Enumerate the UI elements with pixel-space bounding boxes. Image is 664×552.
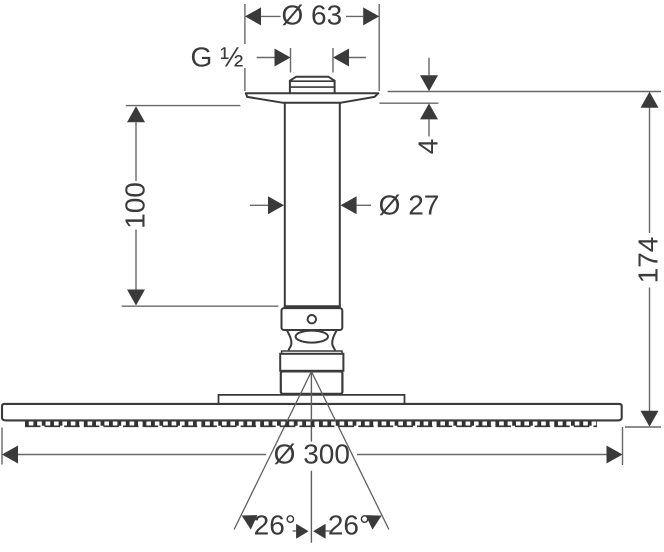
- angle center arrow right: [313, 524, 326, 539]
- collar nut: [282, 308, 343, 330]
- thread stub: [290, 77, 335, 93]
- dimension 4 extension line bottom: [380, 102, 439, 104]
- dimension 100 arrow bottom: [127, 290, 145, 306]
- dimension Ø300 arrow left: [2, 446, 18, 464]
- dimension Ø63 arrow left: [245, 7, 261, 25]
- dimension Ø27 arrow left: [268, 196, 284, 214]
- dimension G1/2 tail left: [257, 57, 275, 59]
- dimension 174 line: [649, 108, 651, 412]
- dimension G1/2 arrow right: [333, 49, 349, 67]
- dimension G1/2 extension line left: [290, 48, 292, 73]
- svg-text:26°: 26°: [328, 510, 370, 541]
- ball joint right contour: [332, 330, 336, 350]
- thread lines: [290, 81, 335, 87]
- angle arrowhead right: [366, 515, 382, 530]
- dimension Ø300 extension line left: [1, 428, 3, 465]
- dimension 100 line: [135, 123, 137, 290]
- svg-text:26°: 26°: [254, 510, 296, 541]
- dimension Ø27 tail right: [357, 204, 371, 206]
- dimension 4 extension line top: [388, 91, 661, 93]
- svg-text:Ø 300: Ø 300: [274, 438, 350, 469]
- mount block upper: [280, 354, 343, 371]
- dimension 100 arrow top: [127, 106, 145, 122]
- angle center tail left: [293, 530, 297, 532]
- dimension 4 leader lines: [428, 58, 430, 137]
- dimension G1/2 arrow left: [275, 49, 291, 67]
- dimension 4 arrow down: [420, 75, 438, 91]
- svg-text:174: 174: [633, 237, 664, 284]
- ball joint left contour: [287, 330, 291, 350]
- mount lip: [282, 351, 342, 354]
- dimension 174 arrow top: [641, 92, 659, 108]
- dimension G1/2 tail right: [349, 57, 366, 59]
- svg-text:Ø 63: Ø 63: [281, 0, 342, 31]
- center axis line: [310, 372, 312, 543]
- svg-text:4: 4: [413, 139, 444, 155]
- dimension Ø300 extension line right: [622, 427, 624, 465]
- svg-text:G ½: G ½: [191, 42, 244, 73]
- mount block lower: [281, 371, 343, 393]
- dimension 174 arrow bottom: [641, 411, 659, 427]
- pipe: [285, 103, 340, 306]
- pipe bottom line: [284, 305, 341, 307]
- dimension Ø63 arrow right: [363, 7, 379, 25]
- dimension 100 extension line top: [126, 105, 241, 107]
- dimension Ø63 line: [261, 15, 363, 17]
- svg-text:Ø 27: Ø 27: [379, 190, 440, 221]
- ball: [296, 331, 328, 343]
- dimension Ø27 tail left: [250, 204, 269, 206]
- svg-text:100: 100: [120, 182, 151, 229]
- angle center arrow left: [296, 524, 309, 539]
- spray angle line right: [311, 372, 389, 530]
- shower plate: [2, 404, 622, 421]
- platform on plate: [219, 395, 405, 405]
- set screw hole: [308, 315, 316, 323]
- dimension Ø63 extension line left: [244, 4, 246, 91]
- spray nozzle band: [25, 421, 597, 425]
- dimension 174 extension line bottom: [625, 426, 661, 428]
- angle center tail right: [326, 530, 331, 532]
- dimension 4 arrow up: [420, 103, 438, 119]
- dimension Ø63 extension line right: [378, 4, 380, 91]
- angle arrowhead left: [242, 515, 258, 530]
- dimension 100 extension line bottom: [122, 305, 279, 307]
- dimension Ø300 line: [18, 454, 607, 456]
- dimension Ø300 arrow right: [607, 446, 623, 464]
- spray angle line left: [234, 372, 311, 530]
- dimension Ø27 arrow right: [341, 196, 357, 214]
- escutcheon ceiling plate: [246, 93, 379, 103]
- dimension G1/2 extension line right: [332, 48, 334, 73]
